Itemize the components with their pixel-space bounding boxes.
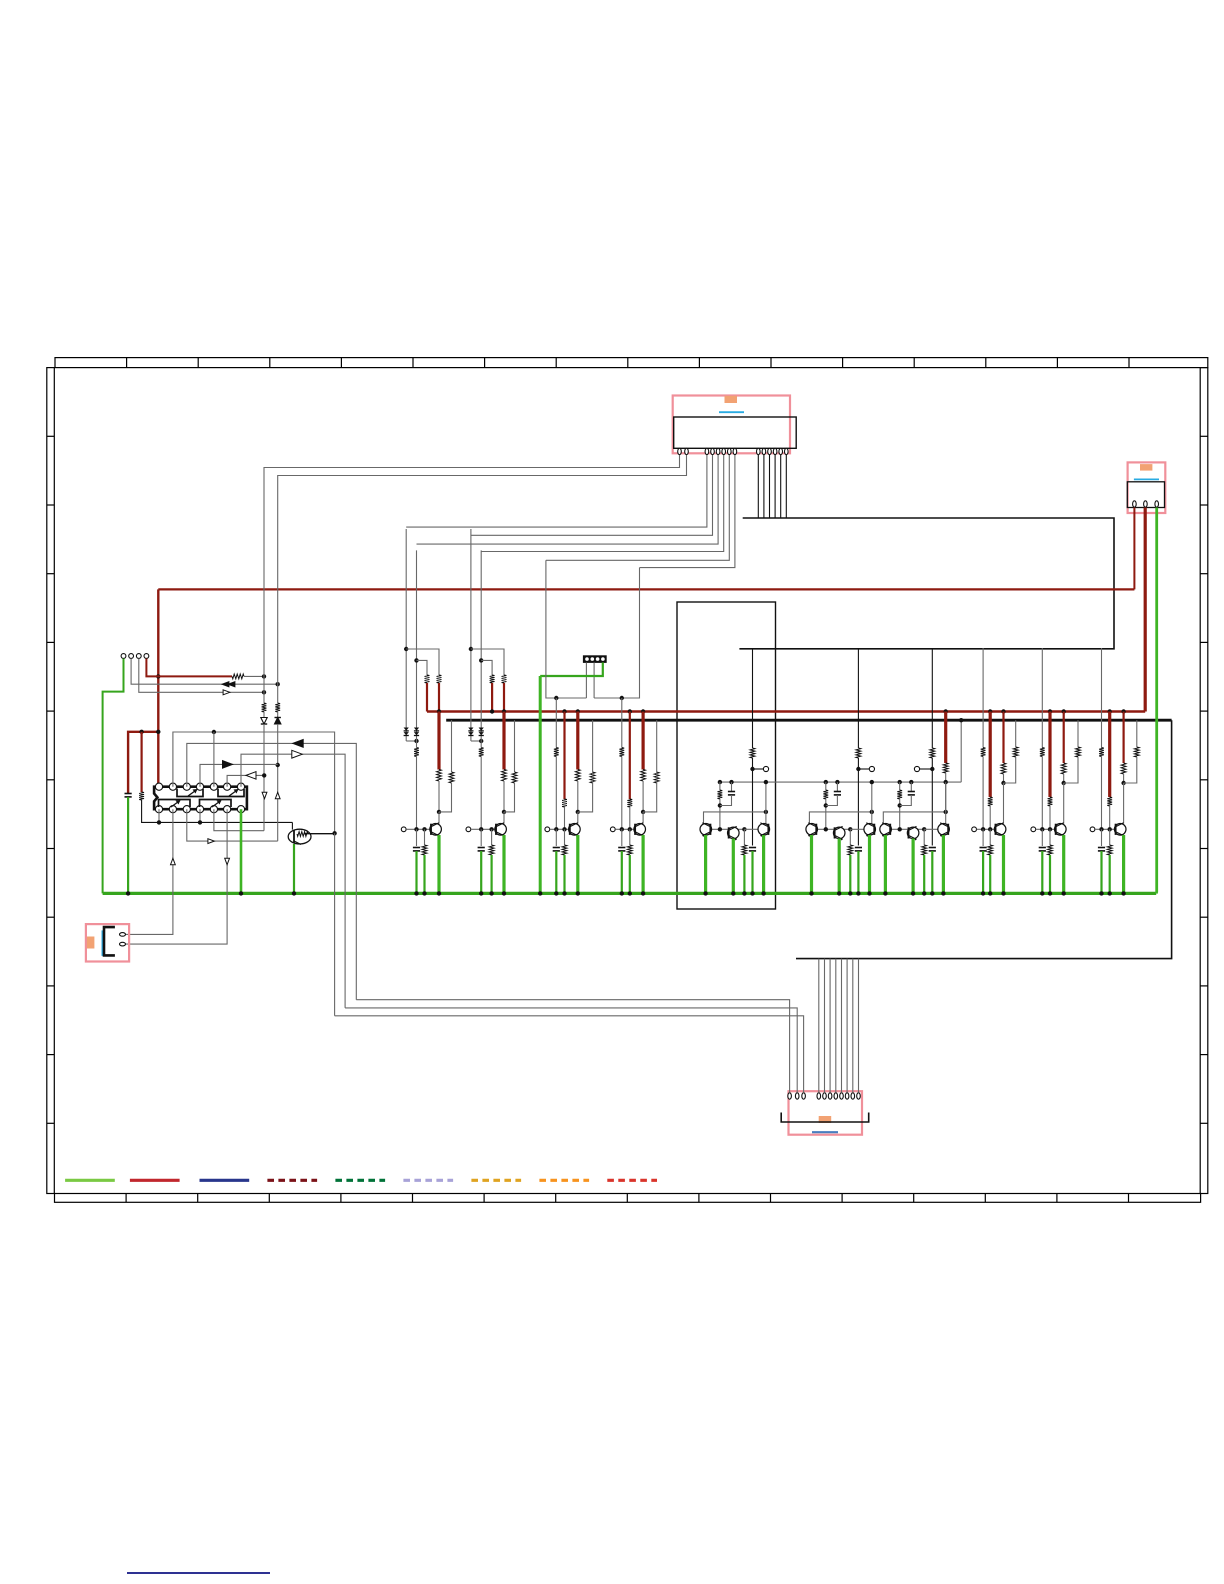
pin — [828, 1093, 832, 1099]
row D wire — [200, 764, 278, 786]
pin bottom — [183, 806, 190, 813]
row A wire — [173, 732, 335, 833]
wire ground bus green — [103, 892, 1157, 895]
resistor — [848, 845, 853, 855]
wire green emitter — [502, 835, 505, 893]
resistor — [1107, 845, 1112, 855]
diode pair — [414, 728, 419, 731]
pin bottom — [169, 806, 176, 813]
wire col b — [480, 550, 482, 741]
amplifier section box — [677, 602, 776, 909]
wire green emitter T1 — [884, 835, 887, 893]
wire to terminal — [753, 768, 764, 770]
junction — [292, 891, 296, 895]
wire red — [629, 712, 631, 800]
terminals J1-J4 — [121, 654, 126, 659]
link line — [101, 930, 103, 956]
pin top — [224, 783, 231, 790]
wire green — [1109, 855, 1111, 893]
transistor T1 at 886 — [880, 824, 892, 836]
pin — [1133, 501, 1137, 507]
resistor — [1001, 763, 1006, 774]
resistor — [922, 845, 927, 855]
pin — [678, 448, 682, 454]
wire to base — [480, 757, 482, 830]
wire side — [656, 720, 658, 747]
terminal — [869, 766, 874, 771]
pin bottom — [196, 806, 203, 813]
pin — [685, 448, 689, 454]
resistor R2 — [232, 674, 244, 679]
wire base — [550, 828, 571, 830]
wire green — [621, 851, 623, 893]
transistor at 1060 — [1055, 824, 1067, 836]
IC U1 relay block — [154, 787, 247, 810]
transistor T3 at 764 — [758, 824, 770, 836]
wire red J4 — [146, 659, 232, 677]
junction — [212, 730, 216, 734]
wire chain — [621, 698, 623, 748]
resistor — [512, 772, 517, 783]
resistor — [437, 675, 442, 683]
arrow — [223, 690, 230, 695]
resistor R1 — [139, 792, 144, 800]
pin — [705, 448, 709, 454]
wire red CN2-1 — [1133, 508, 1135, 590]
resistor — [1099, 748, 1104, 757]
resistor — [1040, 748, 1045, 757]
wire jog b — [417, 660, 428, 675]
wire col b — [416, 550, 418, 741]
diode pair — [468, 728, 473, 731]
wire red to resistor — [141, 732, 143, 792]
junction — [262, 690, 266, 694]
transistor T3 at 870 — [864, 824, 876, 836]
junction — [276, 682, 280, 686]
wire green emitter T2 — [911, 839, 914, 894]
wire green emitter T2 — [838, 839, 841, 894]
wire CN1 to box — [769, 455, 771, 518]
wire — [277, 724, 279, 841]
transistor T2 at 839 — [833, 827, 845, 839]
diode D2 — [277, 712, 279, 717]
wire to terminal — [920, 768, 933, 770]
pin — [788, 1093, 792, 1099]
header J5 — [583, 656, 606, 663]
pin — [795, 1093, 799, 1099]
wire green emitter T3 — [762, 835, 765, 893]
resistor — [943, 763, 948, 773]
wire to collector — [503, 812, 505, 824]
connector CN2 body — [1127, 482, 1164, 508]
wire CN1 staircase — [406, 455, 707, 527]
wire green trunk — [539, 676, 542, 893]
wire side — [1015, 720, 1017, 747]
wire green emitter — [641, 835, 644, 893]
wire base — [1095, 828, 1116, 830]
connector CN4 (left) — [86, 924, 129, 961]
transistor at 501 — [495, 824, 507, 836]
wire green emitter — [1002, 835, 1005, 893]
pin top — [237, 783, 244, 790]
resistor — [425, 675, 430, 683]
wire red thick — [1108, 712, 1111, 798]
junction — [156, 730, 160, 734]
connector CN3 (bottom) — [789, 1091, 863, 1135]
resistor — [575, 770, 580, 782]
diode pair — [479, 728, 484, 731]
wire — [334, 833, 336, 1016]
terminal — [466, 827, 471, 832]
capacitor — [980, 847, 987, 849]
capacitor — [929, 847, 936, 849]
arrow — [223, 761, 233, 769]
arrow — [275, 792, 280, 798]
wire IC pin7b green — [240, 809, 243, 893]
capacitor — [478, 847, 485, 849]
wire green J1 to ground — [103, 659, 124, 894]
wire red thick — [989, 712, 992, 798]
wire green emitter T2 — [732, 839, 735, 894]
wire J3 — [139, 659, 264, 693]
wire jog a — [471, 649, 504, 675]
wire side — [1136, 720, 1138, 747]
wire green — [415, 851, 417, 893]
resistor R3 — [262, 703, 267, 712]
pin — [716, 448, 720, 454]
wire CN1 staircase — [546, 455, 729, 560]
wire red trunk left — [157, 589, 159, 786]
connector CN1 (top) — [673, 396, 790, 454]
pin top — [169, 783, 176, 790]
resistor — [823, 790, 828, 799]
wire feed — [931, 648, 933, 748]
wire green — [491, 855, 493, 893]
wire CN1 staircase — [471, 455, 713, 535]
resistor — [479, 748, 484, 757]
resistor — [1107, 797, 1112, 806]
resistor — [1048, 845, 1053, 855]
wire — [471, 740, 481, 742]
wire side — [451, 720, 453, 772]
pin — [120, 942, 126, 946]
wire side — [514, 720, 516, 772]
wire red — [1063, 712, 1065, 764]
capacitor — [618, 847, 625, 849]
wire base — [817, 828, 850, 830]
wire side — [1077, 720, 1079, 747]
wire CN1 to box — [774, 455, 776, 518]
capacitor — [834, 791, 841, 793]
pin — [840, 1093, 844, 1099]
junction — [959, 718, 963, 722]
wire red thick — [502, 712, 505, 770]
wire red thick — [437, 712, 440, 770]
row C wire — [241, 754, 345, 1008]
wire base — [977, 828, 997, 830]
wire red — [563, 712, 565, 800]
wire red drop to bias rail — [944, 709, 948, 713]
wire CN1 to box — [780, 455, 782, 518]
resistor — [742, 845, 747, 855]
pin — [823, 1093, 827, 1099]
resistor — [562, 799, 567, 807]
pin bottom — [237, 806, 244, 813]
resistor — [627, 845, 632, 855]
wire CN1 to box — [763, 455, 765, 518]
resistor — [1076, 747, 1081, 757]
resistor — [414, 748, 419, 757]
resistor — [981, 748, 986, 757]
arrow — [208, 839, 214, 844]
transistor at 640 — [634, 824, 646, 836]
wire green emitter T3 — [868, 835, 871, 893]
resistor — [1048, 797, 1053, 806]
wires to CN3 left pins — [356, 1000, 789, 1093]
wire green J5-4 — [540, 662, 603, 676]
terminal — [1031, 827, 1036, 832]
pin — [802, 1093, 806, 1099]
wire jog a — [406, 649, 439, 675]
pin — [817, 1093, 821, 1099]
junction — [126, 891, 130, 895]
wire base — [1036, 828, 1057, 830]
wire collector bus — [704, 812, 766, 824]
resistor — [449, 772, 454, 783]
wire collector bus — [883, 812, 945, 824]
wire chain — [555, 698, 557, 748]
wire base — [615, 828, 635, 830]
capacitor — [553, 847, 560, 849]
pin bottom — [210, 806, 217, 813]
wire chain from box — [1041, 648, 1043, 748]
wire col a — [470, 529, 472, 741]
wire base — [891, 828, 924, 830]
resistor — [930, 748, 935, 758]
pin bottom — [155, 806, 162, 813]
wire red thick — [576, 712, 579, 770]
wire base — [712, 828, 745, 830]
wire base — [471, 828, 497, 830]
transistor T1 at 706 — [700, 824, 712, 836]
wire green — [857, 851, 859, 893]
row E wire — [227, 775, 264, 786]
wire green — [563, 855, 565, 893]
wire red — [1002, 712, 1004, 764]
terminal — [972, 827, 977, 832]
wire Q1 to column — [304, 833, 335, 835]
pin bottom — [224, 806, 231, 813]
wire — [263, 724, 265, 831]
IC switch glyphs — [177, 789, 203, 797]
transistor T3 at 944 — [938, 824, 950, 836]
capacitor — [1039, 847, 1046, 849]
pin top — [155, 783, 162, 790]
wire IC pin6b to CN4 — [125, 809, 227, 944]
wire side — [592, 720, 594, 747]
resistor — [1061, 763, 1066, 774]
wire red — [438, 683, 440, 712]
junction — [276, 763, 280, 767]
resistor — [988, 845, 993, 855]
wire red thick — [1048, 712, 1051, 798]
wire green emitter T1 — [704, 835, 707, 893]
capacitor — [413, 847, 420, 849]
wire collector bus — [809, 812, 871, 824]
resistor — [641, 770, 646, 782]
diode D1 — [263, 712, 265, 717]
pin — [857, 1093, 861, 1099]
wire CN1 staircase — [640, 455, 735, 568]
resistor — [718, 790, 723, 799]
transistor T2 at 733 — [728, 827, 740, 839]
connector CN4 body — [104, 927, 115, 955]
pin — [779, 448, 783, 454]
pin — [1155, 501, 1159, 507]
wire green emitter — [576, 835, 579, 893]
wire jog b — [481, 660, 492, 675]
wire green emitter T3 — [942, 835, 945, 893]
wire red thick — [641, 712, 644, 770]
wire green — [931, 851, 933, 893]
junction — [139, 730, 143, 734]
wire green — [1041, 851, 1043, 893]
connector CN3 body — [781, 1113, 869, 1123]
wire red — [426, 683, 428, 712]
arrow — [225, 858, 230, 864]
wire IC pin4b — [199, 809, 201, 822]
wire to terminal — [858, 768, 869, 770]
pin top — [183, 783, 190, 790]
transistor T1 at 812 — [806, 824, 818, 836]
wire IC pin5b — [214, 809, 264, 831]
arrow — [262, 792, 267, 798]
wire green — [849, 855, 851, 893]
capacitor — [908, 791, 915, 793]
terminal — [914, 766, 919, 771]
wire green — [480, 851, 482, 893]
wire col a — [405, 529, 407, 741]
wire jog cell4 — [594, 568, 639, 698]
wire J5-1 — [585, 662, 587, 698]
arrow — [293, 740, 303, 748]
wire CN1 to box — [757, 455, 759, 518]
resistor — [502, 770, 507, 782]
resistor — [502, 675, 507, 683]
wire J2 — [131, 659, 278, 685]
wire IC pin2b to CN4 — [125, 809, 173, 934]
wire chain from box — [1101, 648, 1103, 748]
wire CN1 staircase — [417, 455, 719, 544]
wire signal rail black — [446, 719, 1171, 722]
junction — [156, 674, 160, 678]
wire green emitter — [1122, 835, 1125, 893]
resistor — [562, 845, 567, 855]
pin — [851, 1093, 855, 1099]
wire — [406, 740, 416, 742]
wire green — [743, 855, 745, 893]
pin — [757, 448, 761, 454]
transistor at 1120 — [1114, 824, 1126, 836]
pin — [711, 448, 715, 454]
wire to output connector — [796, 720, 1172, 958]
wire green — [127, 797, 129, 893]
module block box (open left) — [739, 518, 1114, 649]
transistor at 1000 — [994, 824, 1006, 836]
diode pair — [404, 728, 409, 731]
wire to base — [416, 757, 418, 830]
resistor — [988, 797, 993, 806]
wire red — [491, 683, 493, 712]
pin — [722, 448, 726, 454]
wire IC pin3b — [187, 809, 278, 841]
resistor — [654, 772, 659, 783]
pin — [773, 448, 777, 454]
connector CN1 body — [674, 417, 797, 448]
arrow — [246, 772, 256, 780]
transistor at 436 — [430, 824, 442, 836]
wire base — [406, 828, 431, 830]
pin top — [196, 783, 203, 790]
wire red — [1122, 712, 1124, 764]
wire red — [503, 683, 505, 712]
capacitor — [1098, 847, 1105, 849]
capacitor — [728, 791, 735, 793]
resistor — [856, 748, 861, 758]
link line — [1134, 478, 1159, 480]
wire green emitter — [437, 835, 440, 893]
wire feed — [752, 648, 754, 748]
pin — [1144, 501, 1148, 507]
wire green — [982, 851, 984, 893]
link underline — [127, 1572, 270, 1574]
capacitor — [855, 847, 862, 849]
resistor R4 — [275, 703, 280, 712]
wire green — [629, 855, 631, 893]
wire green emitter T1 — [810, 835, 813, 893]
resistor — [490, 675, 495, 683]
pin — [768, 448, 772, 454]
transistor T2 at 913 — [907, 827, 919, 839]
wire column from CN1 pin1 — [264, 455, 680, 703]
terminal — [1090, 827, 1095, 832]
resistor — [627, 799, 632, 807]
wire red branch — [128, 732, 158, 793]
legend — [65, 1179, 115, 1182]
wire chain from box — [982, 648, 984, 748]
transistor at 574 — [569, 824, 581, 836]
pin — [733, 448, 737, 454]
arrow — [228, 682, 235, 687]
wire IC pin1b — [158, 809, 160, 822]
wire green — [423, 855, 425, 893]
wire green Q1 emitter — [293, 844, 295, 893]
wire J5-2 — [593, 662, 595, 698]
junction — [262, 773, 266, 777]
wire feed — [857, 648, 859, 748]
pin — [834, 1093, 838, 1099]
resistor — [750, 748, 755, 758]
terminal — [401, 827, 406, 832]
wire CN1 to box — [785, 455, 787, 518]
resistor — [897, 790, 902, 799]
pin top — [210, 783, 217, 790]
pin — [728, 448, 732, 454]
connector CN2 (top right) — [1128, 462, 1166, 513]
terminal — [545, 827, 550, 832]
arrow — [292, 750, 302, 758]
wire power rail red B+ — [427, 710, 1145, 712]
